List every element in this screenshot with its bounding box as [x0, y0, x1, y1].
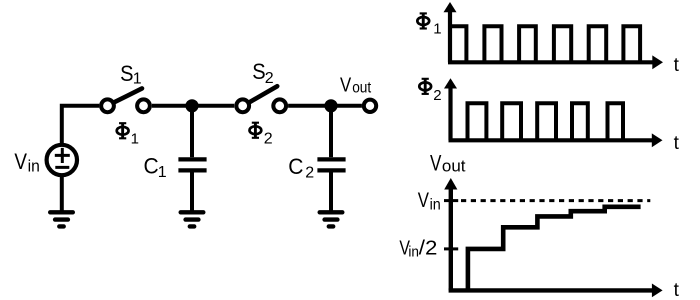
terminal Vout (open circle)	[364, 100, 376, 112]
ground (below C2)	[320, 212, 343, 226]
waveform phi2 (clock pulses)	[468, 103, 624, 140]
ground (below Vin)	[50, 212, 73, 226]
ground (below C1)	[181, 212, 204, 226]
label C2	[288, 154, 314, 182]
label Vin (level marker)	[418, 189, 441, 213]
svg-text:S: S	[252, 59, 265, 84]
wire C2 bottom to ground	[329, 173, 333, 212]
svg-text:t: t	[674, 55, 680, 76]
svg-text:V: V	[430, 151, 442, 176]
svg-text:S: S	[120, 61, 133, 86]
svg-text:V: V	[14, 149, 27, 174]
switch S2	[236, 86, 286, 112]
capacitor C1	[178, 159, 206, 170]
switch S1	[101, 88, 150, 112]
svg-text:C: C	[144, 154, 159, 179]
wire node B down to C2	[329, 108, 333, 157]
svg-text:2: 2	[265, 70, 274, 87]
label Vin	[14, 149, 39, 175]
svg-text:1: 1	[158, 164, 167, 181]
svg-text:in: in	[408, 243, 419, 260]
label phi1 (switch control)	[117, 123, 139, 148]
label C1	[144, 154, 167, 182]
waveform phi1 (clock pulses)	[450, 26, 640, 62]
svg-text:in: in	[28, 156, 40, 175]
svg-text:t: t	[674, 133, 680, 154]
waveform Vout (staircase)	[468, 207, 641, 291]
tick at Vin/2 level	[444, 247, 458, 250]
svg-text:2: 2	[305, 165, 314, 182]
Vout plot x-axis	[449, 284, 663, 298]
label Vin/2 (level marker)	[399, 237, 437, 260]
phi1 plot x-axis	[448, 55, 663, 69]
wire from S2 to Vout terminal through node B	[288, 104, 362, 108]
dashed line at Vin level	[461, 199, 650, 202]
phi1 plot y-axis	[444, 2, 457, 62]
node A (junction of S1, C1, S2)	[185, 99, 198, 112]
svg-text:out: out	[352, 79, 371, 96]
wire from S1 to S2 through node A	[152, 104, 234, 108]
wire from Vin top to switch S1	[62, 106, 100, 146]
svg-text:1: 1	[433, 21, 441, 38]
label S1	[120, 61, 142, 88]
svg-text:V: V	[418, 189, 429, 212]
label S2	[252, 59, 274, 87]
phi2 plot y-axis	[444, 78, 457, 140]
wire C1 bottom to ground	[190, 173, 194, 212]
voltage source Vin	[47, 145, 77, 175]
svg-text:2: 2	[264, 131, 273, 148]
label phi2 (timing plot)	[419, 78, 441, 104]
svg-text:V: V	[340, 75, 352, 97]
svg-text:out: out	[442, 157, 466, 176]
svg-text:1: 1	[131, 130, 139, 147]
svg-text:1: 1	[133, 71, 142, 88]
svg-text:in: in	[430, 196, 441, 213]
label phi2 (switch control)	[250, 122, 273, 148]
svg-text:C: C	[288, 154, 303, 179]
wire node A down to C1	[190, 108, 194, 157]
label phi1 (timing plot)	[417, 13, 441, 38]
phi2 plot x-axis	[449, 133, 663, 147]
Vout plot y-axis	[444, 178, 457, 290]
svg-text:/2: /2	[419, 237, 438, 259]
label Vout (output plot)	[430, 151, 466, 176]
svg-text:2: 2	[433, 87, 441, 104]
capacitor C2	[317, 159, 345, 170]
node B (junction of S2, C2, Vout)	[324, 99, 337, 112]
svg-text:t: t	[674, 280, 680, 300]
tick at Vin level	[444, 199, 458, 202]
wire from Vin bottom to ground	[60, 174, 64, 211]
label Vout (circuit)	[340, 75, 372, 97]
